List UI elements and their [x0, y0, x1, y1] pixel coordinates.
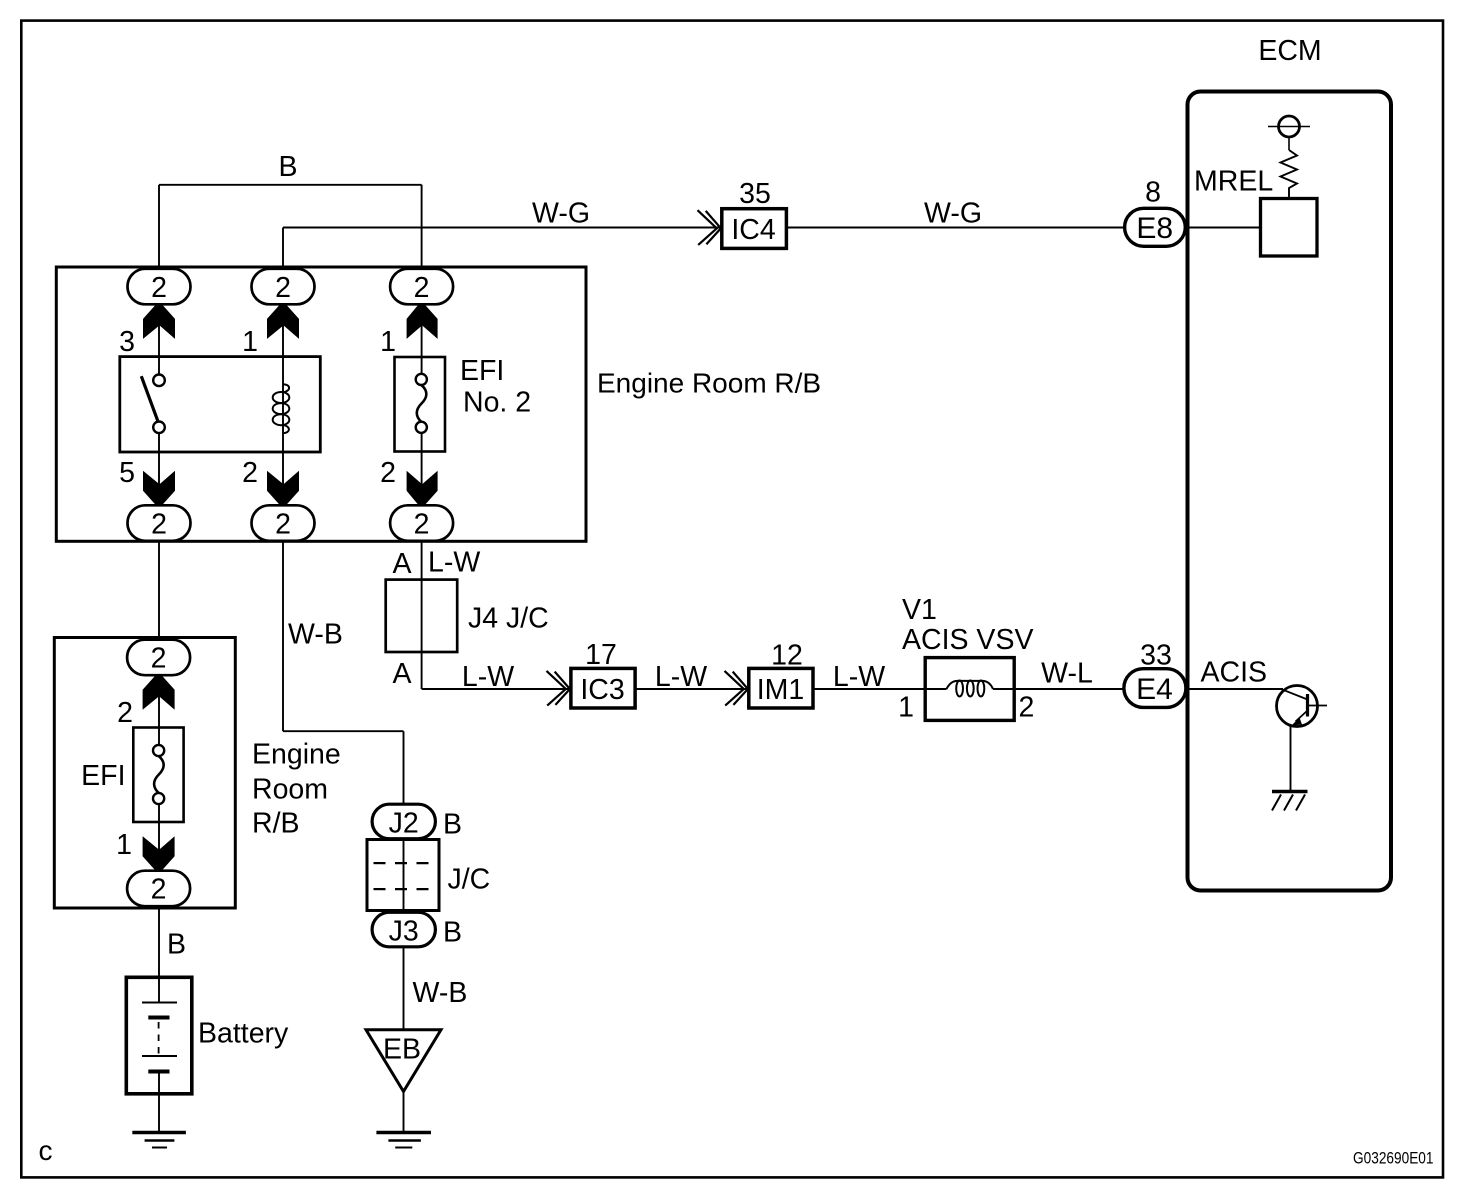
svg-text:ACIS: ACIS	[1201, 657, 1268, 689]
wire B left vertical drop to relay block	[158, 185, 160, 267]
junction IC4 box	[722, 209, 787, 249]
ECM box	[1188, 92, 1392, 891]
svg-text:V1: V1	[902, 594, 937, 626]
svg-text:Battery: Battery	[198, 1018, 289, 1050]
svg-text:33: 33	[1140, 640, 1172, 672]
solenoid V1 ACIS VSV box	[925, 658, 1014, 721]
wire W-G horizontal to IC4	[283, 227, 721, 229]
svg-text:1: 1	[898, 692, 914, 724]
svg-text:L-W: L-W	[462, 661, 514, 693]
resistor (MREL pull-up)	[1281, 150, 1298, 199]
svg-text:Engine: Engine	[252, 739, 341, 771]
connector arrow down (lower box)	[143, 836, 175, 871]
connector oval 2 (lower top)	[127, 640, 190, 676]
wire column2 through relay coil down to W-B corner	[282, 267, 284, 731]
chevron into IC4	[698, 210, 721, 245]
svg-text:B: B	[443, 809, 462, 841]
fuse EFI No.2 box	[395, 357, 446, 452]
MREL driver box	[1261, 199, 1318, 257]
connector arrow up c1	[143, 304, 175, 339]
svg-text:EFI: EFI	[460, 355, 504, 387]
wire B right vertical drop to EFI No.2 fuse	[421, 185, 423, 267]
relay switch blade	[141, 376, 157, 421]
svg-text:J/C: J/C	[448, 864, 491, 896]
wire W-B down through J/C to EB ground	[403, 731, 405, 1030]
svg-text:12: 12	[771, 640, 803, 672]
wire column3 down to EFI No.2 fuse	[421, 267, 423, 374]
connector oval 2 top c1	[128, 269, 191, 305]
wire column1 battery to ground	[158, 1072, 160, 1132]
relay switch bottom contact	[153, 422, 165, 434]
connector oval 2 (lower bottom)	[127, 871, 190, 907]
wire column3 fuse through J4 J/C down to L-W row	[421, 433, 423, 689]
connector oval 2 bottom c3	[390, 505, 453, 541]
svg-text:R/B: R/B	[252, 808, 300, 840]
connector oval J3	[372, 912, 435, 947]
ground (ECM internal)	[1272, 792, 1308, 811]
junction IM1 box	[749, 668, 813, 708]
connector oval E4	[1124, 669, 1186, 708]
svg-text:A: A	[392, 658, 411, 690]
svg-text:E4: E4	[1136, 673, 1173, 706]
wire L-W / W-L row to VSV coil	[422, 688, 947, 690]
connector arrow up c3	[407, 304, 438, 339]
svg-text:W-G: W-G	[924, 198, 982, 230]
svg-text:G032690E01: G032690E01	[1353, 1148, 1434, 1167]
relay switch top contact	[153, 375, 165, 387]
svg-text:5: 5	[119, 457, 135, 489]
connector oval 2 top c3	[390, 269, 453, 305]
power terminal circle	[1268, 116, 1310, 137]
svg-text:B: B	[278, 151, 297, 183]
Engine Room R/B box (lower)	[54, 638, 235, 909]
svg-text:W-L: W-L	[1041, 658, 1093, 690]
connector oval 2 bottom c2	[252, 505, 315, 541]
fuse EFI box (lower)	[133, 728, 183, 823]
chevron into IM1	[725, 671, 748, 706]
svg-text:8: 8	[1145, 177, 1161, 209]
svg-text:B: B	[443, 917, 462, 949]
svg-text:L-W: L-W	[833, 661, 885, 693]
svg-text:ACIS VSV: ACIS VSV	[902, 624, 1033, 656]
ground EB triangle	[366, 1030, 441, 1092]
label Engine Room R/B (lower)	[252, 739, 341, 840]
wire column1 relay block top to switch contact	[158, 267, 160, 375]
svg-text:W-B: W-B	[288, 619, 343, 651]
junction J/C box	[367, 840, 439, 911]
svg-text:E8: E8	[1136, 212, 1173, 245]
connector arrow up (lower box)	[143, 675, 175, 710]
ground (battery)	[132, 1133, 186, 1148]
wire column1 switch to EFI fuse	[158, 433, 160, 745]
svg-text:1: 1	[380, 326, 396, 358]
svg-text:2: 2	[151, 508, 167, 540]
connector arrow down c3	[407, 471, 438, 506]
svg-text:2: 2	[414, 508, 430, 540]
ground (EB)	[376, 1133, 431, 1148]
fuse EFI element (lower)	[153, 745, 164, 804]
connector arrow down c2	[267, 471, 299, 506]
svg-text:2: 2	[151, 874, 167, 906]
svg-text:L-W: L-W	[655, 661, 707, 693]
svg-text:W-B: W-B	[413, 977, 468, 1009]
svg-text:IC4: IC4	[731, 214, 776, 246]
svg-text:2: 2	[242, 457, 258, 489]
svg-text:No. 2: No. 2	[463, 387, 531, 419]
svg-text:W-G: W-G	[532, 198, 590, 230]
wire terminal to resistor	[1288, 137, 1290, 150]
wire EB triangle apex to ground	[403, 1092, 405, 1132]
wire W-G from IC4 to E8 and MREL box	[786, 227, 1260, 229]
wire W-G vertical from relay coil terminal	[282, 228, 284, 268]
solenoid coil	[947, 681, 994, 697]
chevron into IC3	[547, 671, 570, 706]
relay coil	[273, 384, 290, 433]
wire B horizontal top	[159, 184, 422, 186]
battery	[126, 977, 192, 1094]
svg-text:2: 2	[275, 508, 291, 540]
svg-text:1: 1	[116, 829, 132, 861]
svg-text:2: 2	[151, 272, 167, 304]
svg-text:2: 2	[380, 457, 396, 489]
svg-text:MREL: MREL	[1194, 166, 1273, 198]
transistor ACIS driver	[1277, 686, 1328, 727]
svg-text:Engine Room R/B: Engine Room R/B	[597, 368, 821, 399]
svg-text:EFI: EFI	[81, 760, 125, 792]
svg-text:Room: Room	[252, 774, 328, 806]
svg-text:J4 J/C: J4 J/C	[468, 603, 549, 635]
svg-text:35: 35	[739, 178, 771, 210]
connector oval 2 bottom c1	[128, 505, 191, 541]
wire W-L from VSV coil to transistor	[993, 688, 1283, 690]
connector oval J2	[372, 804, 435, 840]
svg-text:2: 2	[1019, 692, 1035, 724]
svg-text:2: 2	[414, 272, 430, 304]
relay box	[120, 357, 320, 452]
connector arrow up c2	[267, 304, 299, 339]
svg-text:17: 17	[585, 639, 617, 671]
svg-text:IC3: IC3	[580, 674, 624, 706]
svg-text:2: 2	[117, 697, 133, 729]
svg-text:2: 2	[151, 643, 167, 675]
wire column1 EFI fuse to battery plate	[158, 805, 160, 1003]
svg-text:c: c	[39, 1135, 53, 1166]
connector oval E8	[1125, 208, 1186, 246]
fuse EFI No.2 element	[416, 374, 427, 433]
svg-text:ECM: ECM	[1258, 35, 1321, 67]
Engine Room R/B box (upper)	[56, 267, 586, 541]
svg-text:1: 1	[242, 326, 258, 358]
junction IC3 box	[571, 668, 635, 708]
wire transistor emitter to ground	[1290, 726, 1292, 791]
svg-text:J3: J3	[389, 916, 419, 948]
junction J4 J/C box	[386, 580, 458, 652]
svg-text:J2: J2	[389, 808, 419, 840]
connector oval 2 top c2	[252, 269, 315, 305]
svg-text:A: A	[392, 548, 411, 580]
svg-text:B: B	[167, 929, 186, 961]
svg-text:EB: EB	[383, 1034, 421, 1066]
svg-text:L-W: L-W	[428, 547, 480, 579]
svg-text:IM1: IM1	[757, 674, 805, 706]
svg-text:2: 2	[275, 272, 291, 304]
svg-text:3: 3	[119, 326, 135, 358]
wire W-B horizontal jog	[283, 730, 404, 732]
connector arrow down c1	[143, 471, 175, 506]
